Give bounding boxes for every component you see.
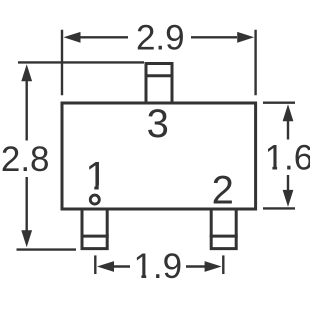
dimension 2.9 right arrow	[191, 36, 237, 38]
svg-text:3: 3	[147, 102, 169, 146]
svg-text:2.9: 2.9	[136, 19, 185, 58]
svg-text:1: 1	[85, 154, 107, 198]
pin 1 indicator circle	[90, 195, 99, 204]
pin 3 tab lead	[146, 64, 172, 104]
pin 1 bend line	[81, 235, 109, 238]
dimension 1.9 right arrow	[186, 265, 205, 267]
dimension 2.9 left extension line	[61, 30, 63, 96]
package body	[62, 103, 256, 209]
pin 3 tab bend line	[145, 74, 174, 77]
dimension 1.9 left arrow	[114, 265, 131, 267]
dimension 2.9 right extension line	[254, 30, 256, 96]
dimension 1.6 bottom extension line	[263, 207, 295, 209]
dimension 2.8 bottom extension line	[17, 248, 77, 250]
dimension 1.6 bottom arrow	[287, 175, 289, 191]
pin 2 lead	[211, 209, 236, 249]
pin 2 bend line	[210, 235, 238, 238]
dimension 2.8 bottom arrow	[26, 177, 28, 232]
dimension 1.9 left tick	[94, 255, 96, 274]
dimension 1.6 top arrow	[287, 120, 289, 140]
dimension 2.9 left arrow	[81, 36, 129, 38]
svg-text:1.9: 1.9	[133, 247, 182, 286]
dimension 2.8 top arrow	[26, 80, 28, 141]
dimension 1.9 right tick	[222, 255, 224, 274]
svg-text:2.8: 2.8	[1, 140, 50, 179]
dimension 1.6 top extension line	[263, 101, 295, 103]
svg-text:1.6: 1.6	[265, 138, 310, 177]
svg-text:2: 2	[212, 168, 234, 212]
pin 1 lead	[82, 209, 107, 249]
dimension 2.8 top extension line	[18, 61, 144, 63]
